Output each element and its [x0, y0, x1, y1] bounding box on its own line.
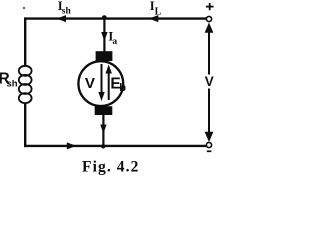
svg-text:V: V [205, 74, 214, 89]
arrow on armature bottom lead (down) [100, 125, 106, 134]
svg-text:sh: sh [7, 79, 18, 90]
arrow V inside armature (down) [101, 64, 103, 94]
svg-text:Fig. 4.2: Fig. 4.2 [82, 159, 139, 176]
terminal plus [206, 16, 211, 21]
wire left vertical upper [24, 17, 26, 66]
svg-text:sh: sh [62, 6, 72, 16]
arrow Ia [101, 32, 107, 41]
speck artifact [23, 7, 25, 9]
svg-text:b: b [119, 82, 126, 94]
wire armature bottom lead [102, 115, 104, 146]
arrow Eb inside armature (up) [108, 72, 110, 100]
wire left vertical lower [24, 103, 26, 148]
wire top horizontal [24, 17, 207, 19]
node junction top [102, 15, 107, 20]
node junction bottom [101, 144, 105, 148]
voltage arrow V (double headed, right side) [208, 30, 210, 75]
armature circle M [78, 61, 123, 106]
svg-text:a: a [112, 37, 117, 47]
arrow on bottom wire (right) [67, 142, 77, 149]
arrow Ish on top wire [57, 15, 67, 22]
label minus sign [207, 150, 212, 152]
shunt field coil Rsh [19, 66, 32, 103]
brush top [96, 51, 113, 61]
svg-text:V: V [85, 75, 96, 92]
wire bottom horizontal [24, 145, 207, 147]
brush bottom [95, 106, 113, 115]
arrow IL on top wire [149, 15, 159, 22]
label plus sign [206, 3, 214, 10]
terminal minus [206, 142, 211, 147]
wire armature top lead [103, 18, 105, 52]
svg-text:L: L [155, 6, 162, 17]
